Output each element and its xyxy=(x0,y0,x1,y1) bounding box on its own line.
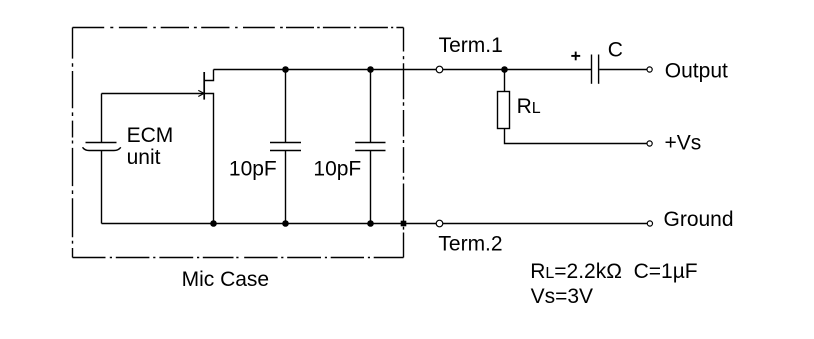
svg-text:Term.2: Term.2 xyxy=(438,233,502,256)
svg-text:+Vs: +Vs xyxy=(665,131,702,154)
svg-text:RL: RL xyxy=(517,95,541,118)
svg-text:Output: Output xyxy=(665,60,728,83)
svg-text:Ground: Ground xyxy=(664,208,734,231)
svg-text:Vs=3V: Vs=3V xyxy=(531,285,593,308)
svg-text:Term.1: Term.1 xyxy=(439,34,503,57)
svg-text:10pF: 10pF xyxy=(229,157,277,180)
svg-text:RL=2.2kΩ C=1µF: RL=2.2kΩ C=1µF xyxy=(530,260,697,283)
svg-text:C: C xyxy=(608,39,623,62)
svg-text:unit: unit xyxy=(127,146,161,169)
svg-text:Mic Case: Mic Case xyxy=(182,268,270,291)
svg-text:10pF: 10pF xyxy=(313,157,361,180)
svg-text:ECM: ECM xyxy=(127,124,174,147)
